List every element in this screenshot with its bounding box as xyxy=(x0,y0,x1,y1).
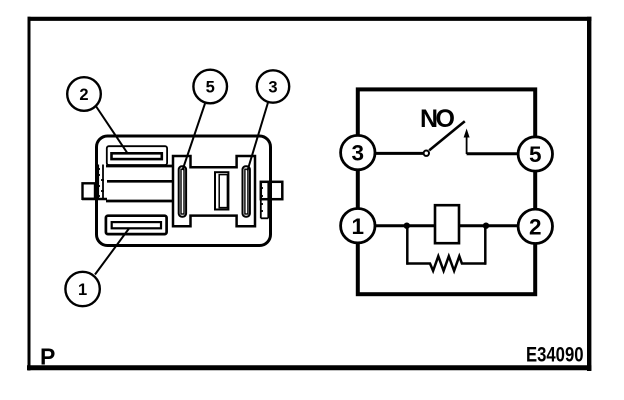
terminal slot 3 outer xyxy=(243,166,250,216)
cavity contour xyxy=(173,156,255,226)
border frame right xyxy=(587,17,591,371)
junction dot left xyxy=(404,223,410,229)
svg-text:1: 1 xyxy=(352,214,365,239)
rib line 1 xyxy=(106,165,174,168)
switch contact xyxy=(424,151,429,156)
relay coil L xyxy=(435,205,459,243)
terminal slot 2 inner bar xyxy=(112,153,162,159)
switch arrow xyxy=(466,135,468,155)
schematic circle 5 xyxy=(518,137,552,171)
rib line 3 xyxy=(106,200,174,203)
schematic circle 1 xyxy=(341,209,375,243)
left hatched strip xyxy=(97,165,104,201)
callout circle 3 xyxy=(257,70,289,102)
callout circle 2 xyxy=(67,77,101,111)
terminal slot 1 inner bar xyxy=(112,222,161,228)
svg-text:1: 1 xyxy=(78,281,87,299)
wire top-left to switch contact xyxy=(358,152,423,155)
switch blade xyxy=(429,121,465,150)
callout leader 2 xyxy=(96,106,128,154)
svg-text:5: 5 xyxy=(206,79,215,97)
callout circle 1 xyxy=(65,272,99,306)
schematic circle 3 xyxy=(341,135,375,169)
resistor branch right xyxy=(484,226,487,265)
svg-text:3: 3 xyxy=(352,141,365,166)
left tab bottom line xyxy=(82,198,107,201)
center slot outer xyxy=(215,172,228,209)
resistor R xyxy=(407,256,487,271)
border frame left xyxy=(28,17,31,371)
terminal slot 3 inner xyxy=(245,169,248,214)
border frame top xyxy=(28,17,592,21)
svg-text:5: 5 xyxy=(529,142,542,167)
connector body xyxy=(97,136,271,246)
terminal slot 1 outer xyxy=(106,216,167,234)
left tab xyxy=(83,183,96,199)
right strip xyxy=(260,181,268,218)
svg-text:3: 3 xyxy=(268,79,277,97)
junction dot right xyxy=(483,223,489,229)
terminal slot 5 inner xyxy=(181,169,184,214)
svg-text:NO: NO xyxy=(420,105,455,133)
callout leader 1 xyxy=(95,229,129,275)
border frame bottom xyxy=(27,365,591,370)
wire arrow to circle 5 xyxy=(467,152,535,155)
svg-text:2: 2 xyxy=(529,214,542,239)
schematic circle 2 xyxy=(518,209,552,243)
rib line 2 xyxy=(107,180,174,183)
schematic outer loop xyxy=(358,89,535,294)
svg-text:P: P xyxy=(40,344,55,370)
wire middle row xyxy=(358,224,535,227)
center slot inner xyxy=(219,175,227,208)
svg-text:2: 2 xyxy=(79,86,88,104)
callout leader 3 xyxy=(248,103,269,171)
callout circle 5 xyxy=(193,70,227,104)
svg-text:E34090: E34090 xyxy=(526,343,584,367)
resistor branch left xyxy=(406,226,409,265)
right tab xyxy=(261,182,283,199)
terminal slot 5 outer xyxy=(179,166,186,216)
terminal slot 2 outer xyxy=(107,146,167,165)
callout leader 5 xyxy=(183,104,206,171)
